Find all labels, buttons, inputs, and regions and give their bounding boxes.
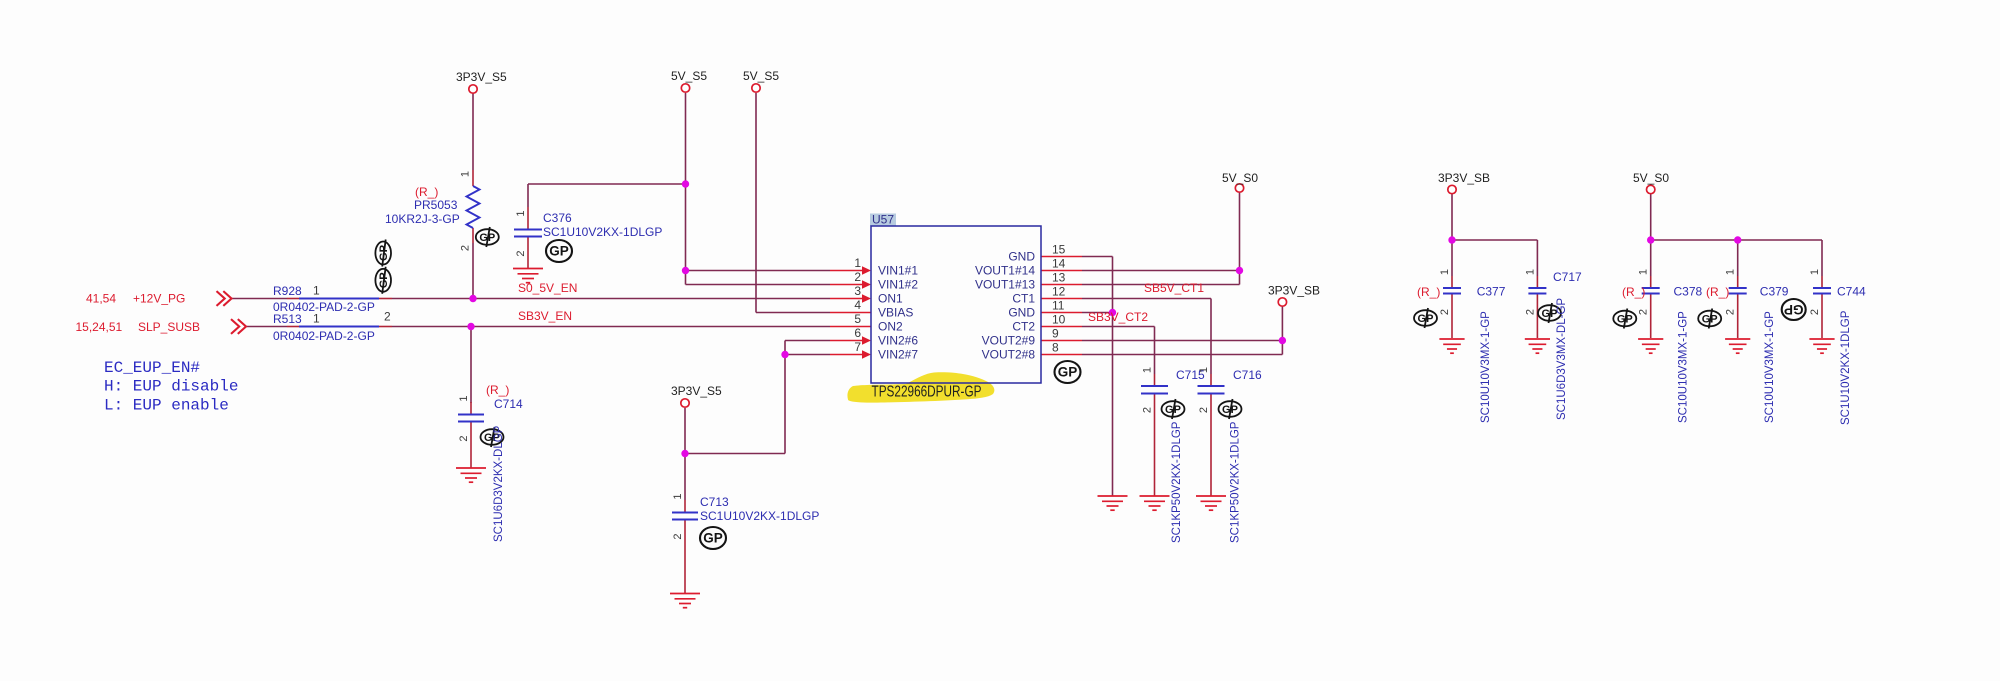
svg-text:1: 1 — [1725, 269, 1737, 275]
svg-text:ON2: ON2 — [878, 320, 903, 334]
svg-text:10: 10 — [1052, 313, 1066, 327]
svg-text:15,24,51: 15,24,51 — [76, 320, 123, 334]
svg-text:C378: C378 — [1674, 285, 1703, 299]
svg-text:1: 1 — [460, 171, 472, 177]
svg-text:+12V_PG: +12V_PG — [133, 292, 185, 306]
svg-text:1: 1 — [854, 256, 861, 270]
svg-text:3: 3 — [854, 284, 861, 298]
svg-text:GND: GND — [1008, 250, 1035, 264]
svg-text:S0_5V_EN: S0_5V_EN — [518, 281, 577, 295]
svg-text:3P3V_SB: 3P3V_SB — [1438, 171, 1490, 185]
svg-text:SB3V_CT2: SB3V_CT2 — [1088, 310, 1148, 324]
svg-text:SLP_SUSB: SLP_SUSB — [138, 320, 200, 334]
svg-text:2: 2 — [1809, 309, 1821, 315]
svg-text:SC1KP50V2KX-1DLGP: SC1KP50V2KX-1DLGP — [1230, 421, 1242, 543]
svg-text:6: 6 — [854, 326, 861, 340]
svg-text:5V_S5: 5V_S5 — [671, 69, 707, 83]
svg-text:2: 2 — [1725, 309, 1737, 315]
svg-text:VIN2#7: VIN2#7 — [878, 348, 918, 362]
svg-text:C716: C716 — [1233, 368, 1262, 382]
svg-text:CT1: CT1 — [1012, 292, 1035, 306]
svg-text:GP: GP — [549, 244, 569, 259]
svg-text:SC10U10V3MX-1-GP: SC10U10V3MX-1-GP — [1764, 311, 1776, 423]
svg-text:R928: R928 — [273, 284, 302, 298]
svg-text:C714: C714 — [494, 397, 523, 411]
svg-text:1: 1 — [1142, 367, 1154, 373]
svg-text:SC1U10V2KX-1DLGP: SC1U10V2KX-1DLGP — [543, 225, 662, 239]
svg-text:2: 2 — [458, 435, 470, 441]
svg-text:0R0402-PAD-2-GP: 0R0402-PAD-2-GP — [273, 329, 375, 343]
svg-text:1: 1 — [313, 284, 320, 298]
svg-text:EC_EUP_EN#: EC_EUP_EN# — [104, 359, 200, 377]
svg-text:2: 2 — [1198, 407, 1210, 413]
svg-text:VOUT1#14: VOUT1#14 — [975, 264, 1035, 278]
svg-text:C717: C717 — [1553, 270, 1582, 284]
svg-text:C376: C376 — [543, 211, 572, 225]
svg-text:2: 2 — [854, 270, 861, 284]
svg-text:1: 1 — [672, 493, 684, 499]
svg-text:C744: C744 — [1837, 285, 1866, 299]
svg-text:2: 2 — [1439, 309, 1451, 315]
svg-text:SB3V_EN: SB3V_EN — [518, 309, 572, 323]
svg-text:SC1U6D3V3MX-DL-GP: SC1U6D3V3MX-DL-GP — [1556, 298, 1568, 420]
svg-text:(R_): (R_) — [486, 383, 509, 397]
svg-text:41,54: 41,54 — [86, 292, 116, 306]
svg-text:VOUT1#13: VOUT1#13 — [975, 278, 1035, 292]
svg-text:VBIAS: VBIAS — [878, 306, 913, 320]
svg-text:SC1KP50V2KX-1DLGP: SC1KP50V2KX-1DLGP — [1171, 421, 1183, 543]
svg-text:SC10U10V3MX-1-GP: SC10U10V3MX-1-GP — [1678, 311, 1690, 423]
svg-text:2: 2 — [1524, 309, 1536, 315]
svg-text:U57: U57 — [872, 213, 894, 227]
svg-text:(R_): (R_) — [415, 185, 438, 199]
svg-text:VOUT2#9: VOUT2#9 — [982, 334, 1036, 348]
svg-text:VIN1#2: VIN1#2 — [878, 278, 918, 292]
svg-text:5V_S5: 5V_S5 — [743, 69, 779, 83]
svg-text:(R_): (R_) — [1622, 285, 1645, 299]
svg-text:GND: GND — [1008, 306, 1035, 320]
svg-text:3P3V_SB: 3P3V_SB — [1268, 284, 1320, 298]
svg-text:1: 1 — [1524, 269, 1536, 275]
svg-text:3P3V_S5: 3P3V_S5 — [671, 384, 722, 398]
svg-text:SC1U10V2KX-1DLGP: SC1U10V2KX-1DLGP — [1840, 310, 1852, 425]
svg-text:12: 12 — [1052, 285, 1066, 299]
svg-text:VOUT2#8: VOUT2#8 — [982, 348, 1036, 362]
svg-text:15: 15 — [1052, 243, 1066, 257]
svg-text:14: 14 — [1052, 257, 1066, 271]
svg-text:VIN2#6: VIN2#6 — [878, 334, 918, 348]
svg-text:1: 1 — [1638, 269, 1650, 275]
svg-text:SC1U6D3V2KX-DLGP: SC1U6D3V2KX-DLGP — [493, 425, 505, 542]
svg-text:GP: GP — [1784, 302, 1804, 317]
svg-text:11: 11 — [1052, 299, 1065, 313]
svg-text:(R_): (R_) — [1706, 285, 1729, 299]
svg-text:1: 1 — [1198, 367, 1210, 373]
svg-text:TPS22966DPUR-GP: TPS22966DPUR-GP — [872, 384, 982, 401]
svg-text:SB5V_CT1: SB5V_CT1 — [1144, 281, 1204, 295]
svg-text:3P3V_S5: 3P3V_S5 — [456, 70, 507, 84]
svg-text:7: 7 — [854, 340, 861, 354]
svg-text:5V_S0: 5V_S0 — [1222, 171, 1258, 185]
svg-text:2: 2 — [460, 245, 472, 251]
svg-text:L: EUP enable: L: EUP enable — [104, 396, 229, 414]
svg-text:CT2: CT2 — [1012, 320, 1035, 334]
svg-text:H: EUP disable: H: EUP disable — [104, 378, 238, 396]
svg-text:VIN1#1: VIN1#1 — [878, 264, 918, 278]
svg-text:SC1U10V2KX-1DLGP: SC1U10V2KX-1DLGP — [700, 509, 819, 523]
svg-text:8: 8 — [1052, 341, 1059, 355]
svg-text:C379: C379 — [1760, 285, 1789, 299]
svg-text:1: 1 — [1809, 269, 1821, 275]
svg-text:5: 5 — [854, 312, 861, 326]
svg-text:4: 4 — [854, 298, 861, 312]
svg-text:5V_S0: 5V_S0 — [1633, 171, 1669, 185]
svg-text:2: 2 — [1142, 407, 1154, 413]
svg-text:1: 1 — [313, 312, 320, 326]
svg-text:GP: GP — [703, 531, 723, 546]
svg-text:GP: GP — [1058, 365, 1078, 380]
svg-text:10KR2J-3-GP: 10KR2J-3-GP — [385, 212, 460, 226]
svg-text:C377: C377 — [1477, 285, 1506, 299]
svg-text:2: 2 — [672, 533, 684, 539]
svg-text:2: 2 — [515, 250, 527, 256]
svg-text:(R_): (R_) — [1417, 285, 1440, 299]
svg-text:1: 1 — [458, 395, 470, 401]
svg-text:1: 1 — [515, 210, 527, 216]
svg-text:R513: R513 — [273, 312, 302, 326]
svg-text:PR5053: PR5053 — [414, 198, 458, 212]
svg-text:13: 13 — [1052, 271, 1066, 285]
svg-text:9: 9 — [1052, 327, 1059, 341]
svg-text:2: 2 — [384, 310, 391, 324]
svg-text:1: 1 — [1439, 269, 1451, 275]
svg-text:SC10U10V3MX-1-GP: SC10U10V3MX-1-GP — [1480, 311, 1492, 423]
svg-text:ON1: ON1 — [878, 292, 903, 306]
svg-text:2: 2 — [1638, 309, 1650, 315]
svg-text:C713: C713 — [700, 495, 729, 509]
